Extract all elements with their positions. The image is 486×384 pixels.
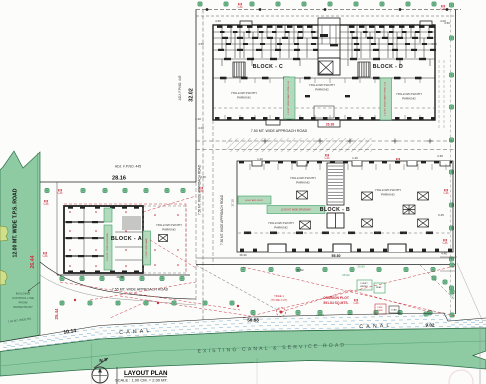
svg-text:HOLLOW PLINTH: HOLLOW PLINTH [375, 188, 400, 192]
svg-text:CB: CB [444, 191, 450, 195]
svg-text:LOAD: LOAD [391, 309, 397, 312]
utility boxes [357, 280, 385, 293]
leader arrow [28, 282, 40, 291]
svg-text:CB: CB [44, 202, 50, 206]
tree (yellow) in strip [0, 226, 8, 241]
svg-text:4.40: 4.40 [441, 252, 447, 256]
svg-text:LIGHT AND VENT.: LIGHT AND VENT. [245, 199, 264, 202]
north boundary of left plot [40, 181, 196, 183]
B interior columns [238, 164, 452, 233]
red dashed plot lines A [64, 196, 196, 273]
trees top row [198, 2, 202, 6]
svg-text:CONTROL LINE: CONTROL LINE [12, 296, 34, 300]
svg-text:SCALE : 1.00 CM. = 2.00 MT.: SCALE : 1.00 CM. = 2.00 MT. [115, 378, 168, 383]
svg-text:25.44: 25.44 [54, 308, 59, 320]
svg-text:4.00: 4.00 [440, 19, 446, 23]
svg-text:56.88: 56.88 [247, 318, 259, 323]
entrance porches [266, 120, 280, 125]
trees right column [449, 3, 453, 7]
interior walls upper floor [213, 25, 435, 66]
B bottom crenellation [268, 244, 406, 252]
stair hatch C [233, 62, 245, 77]
svg-text:HOLLOW PLINTH: HOLLOW PLINTH [268, 221, 293, 225]
svg-text:9.02: 9.02 [451, 293, 455, 299]
svg-text:COMMON PLOT: COMMON PLOT [323, 296, 350, 300]
B shaft [327, 163, 344, 205]
canal top line [0, 313, 486, 342]
svg-text:HOLLOW PLINTH: HOLLOW PLINTH [231, 91, 256, 95]
trees common plot [241, 267, 245, 271]
driveway strip 1 [238, 196, 271, 204]
canal bottom line [0, 328, 486, 352]
star mark [403, 205, 415, 214]
vertical road to canal [195, 182, 197, 300]
A interior [64, 206, 143, 273]
svg-text:PARKING: PARKING [274, 226, 288, 230]
svg-text:1.20: 1.20 [352, 156, 358, 160]
svg-text:4.35: 4.35 [437, 154, 443, 158]
red circles [74, 299, 76, 301]
mid line wall blobs [220, 77, 422, 80]
svg-text:13.50 MT. WIDE DRIVEWAY: 13.50 MT. WIDE DRIVEWAY [106, 232, 109, 260]
common plot diagonals [243, 266, 455, 318]
svg-text:1.20: 1.20 [257, 157, 263, 161]
approach road hatch [226, 138, 372, 152]
service road band [0, 328, 486, 376]
svg-text:WATER BODY: WATER BODY [13, 305, 33, 309]
svg-text:FEAT.: FEAT. [376, 286, 382, 289]
svg-text:PARKING: PARKING [296, 181, 310, 185]
svg-text:30.80: 30.80 [357, 265, 365, 269]
west boundary of upper plot [195, 10, 197, 183]
svg-text:HOLLOW PLINTH: HOLLOW PLINTH [396, 92, 421, 96]
stair hatch D [358, 62, 370, 77]
red dashed radiating lines [60, 282, 250, 318]
road dashes [196, 140, 455, 142]
trees below 28.16 line [45, 188, 49, 192]
svg-text:0.45: 0.45 [438, 213, 444, 217]
svg-text:LAYOUT PLAN: LAYOUT PLAN [124, 370, 168, 377]
svg-text:BLOCK - C: BLOCK - C [253, 64, 283, 70]
svg-text:16.30: 16.30 [239, 253, 247, 257]
svg-text:ADJ. F.P.NO. 445: ADJ. F.P.NO. 445 [178, 75, 182, 100]
svg-text:BLOCK - B: BLOCK - B [320, 207, 350, 213]
svg-text:36.92: 36.92 [296, 268, 304, 272]
svg-text:4.50: 4.50 [215, 19, 221, 23]
svg-text:1.50 MT. WIDE RAMP: 1.50 MT. WIDE RAMP [145, 237, 148, 257]
svg-text:55.30: 55.30 [332, 254, 341, 258]
A stair [122, 217, 141, 229]
svg-text:HOLLOW PLINTH: HOLLOW PLINTH [156, 223, 181, 227]
A wall blobs [66, 207, 139, 273]
svg-text:HOLLOW PLINTH: HOLLOW PLINTH [290, 176, 315, 180]
block C-D building outline [213, 25, 435, 120]
north arrow [92, 367, 108, 383]
svg-text:49.36: 49.36 [116, 275, 124, 279]
bottom crenellation C-D [215, 117, 436, 120]
scan fold lines [91, 343, 93, 384]
svg-text:PARKING: PARKING [237, 96, 251, 100]
svg-text:26.44: 26.44 [30, 255, 36, 268]
svg-text:ADJ. F.P.NO. 445: ADJ. F.P.NO. 445 [115, 165, 141, 169]
svg-text:CB: CB [441, 7, 447, 11]
svg-text:CANAL: CANAL [359, 323, 393, 330]
svg-text:591.84 SQ.MTS.: 591.84 SQ.MTS. [323, 301, 348, 305]
top plot boundary [196, 9, 461, 11]
trees below A [60, 276, 64, 280]
svg-text:4.00: 4.00 [198, 126, 204, 130]
svg-text:9.02: 9.02 [426, 323, 435, 328]
tree to cut circle [277, 308, 286, 317]
svg-text:26.38: 26.38 [326, 123, 335, 127]
svg-text:FROM: FROM [19, 301, 28, 305]
T.P.S. road green strip [0, 151, 40, 342]
plinth extension [143, 206, 186, 273]
center porch [314, 106, 334, 118]
svg-text:FIRE: FIRE [378, 307, 384, 309]
title separator [116, 367, 118, 384]
svg-text:13.50 MT. WIDE DRIVEWAY: 13.50 MT. WIDE DRIVEWAY [281, 209, 312, 212]
lower plinth columns [213, 78, 435, 120]
svg-text:CB: CB [238, 5, 244, 9]
svg-text:PARKING: PARKING [402, 97, 416, 101]
ramp strip D [380, 78, 392, 120]
trees row mid [60, 301, 64, 305]
svg-text:CB: CB [443, 241, 449, 245]
central stair core [318, 25, 340, 75]
svg-text:TANK: TANK [377, 309, 383, 312]
ramp strip C [284, 77, 296, 119]
svg-text:7.50 MT. WIDE APPROACH ROAD: 7.50 MT. WIDE APPROACH ROAD [220, 194, 224, 245]
red dots A [69, 211, 179, 267]
svg-text:N: N [99, 358, 102, 363]
svg-text:BLOCK - D: BLOCK - D [373, 64, 403, 70]
canal water dashes [3, 316, 486, 350]
svg-text:PUMP/: PUMP/ [361, 283, 368, 285]
B top crenellation [239, 161, 452, 163]
svg-text:CB: CB [325, 156, 331, 160]
svg-text:CB: CB [43, 254, 49, 258]
band inner line [0, 341, 486, 366]
svg-text:HOLLOW PLINTH: HOLLOW PLINTH [309, 83, 334, 87]
svg-text:PARKING: PARKING [315, 88, 329, 92]
svg-text:4.50: 4.50 [431, 42, 437, 46]
svg-text:17.10: 17.10 [231, 199, 235, 207]
svg-text:PARKING: PARKING [162, 228, 176, 232]
block A plot thin outline [56, 182, 58, 275]
block B outline [237, 161, 453, 252]
svg-text:1.50 MT. WIDE RAMP UP/DN 1:10: 1.50 MT. WIDE RAMP UP/DN 1:10 [384, 81, 387, 116]
svg-text:28.16: 28.16 [112, 176, 126, 182]
svg-text:12.00 MT. WIDE T.P.S. ROAD: 12.00 MT. WIDE T.P.S. ROAD [13, 188, 19, 257]
block A outer wall [64, 206, 143, 273]
right lower line [479, 326, 481, 384]
svg-text:7.50 MT. WIDE APPROACH R: 7.50 MT. WIDE APPROACH ROAD [251, 129, 308, 133]
parking x marks [297, 191, 308, 199]
A driveway strip [104, 208, 112, 222]
top protrusions [240, 21, 252, 25]
svg-text:BLOCK - A: BLOCK - A [111, 236, 142, 242]
svg-text:1.50 MT. WIDE RAMP UP/DN 1:10: 1.50 MT. WIDE RAMP UP/DN 1:10 [287, 80, 290, 115]
svg-text:CB: CB [199, 189, 205, 193]
driveway strip 2 [267, 206, 325, 214]
south plot line [196, 264, 455, 266]
svg-text:WATER: WATER [360, 285, 368, 288]
svg-text:2.40: 2.40 [195, 117, 201, 121]
east boundary [455, 10, 457, 315]
svg-text:32.02: 32.02 [189, 88, 195, 102]
road curve [40, 262, 196, 299]
svg-text:26.92: 26.92 [342, 273, 350, 277]
east boundary inner dashed [450, 10, 452, 315]
wall blobs [217, 26, 436, 61]
svg-text:CB: CB [354, 301, 360, 305]
svg-text:4.50: 4.50 [200, 175, 206, 179]
dim line 55.30 [196, 257, 455, 259]
svg-text:PARKING: PARKING [381, 193, 395, 197]
svg-text:CB: CB [58, 191, 64, 195]
svg-text:4.50: 4.50 [198, 42, 204, 46]
svg-text:(TO BE CUT): (TO BE CUT) [271, 298, 288, 302]
